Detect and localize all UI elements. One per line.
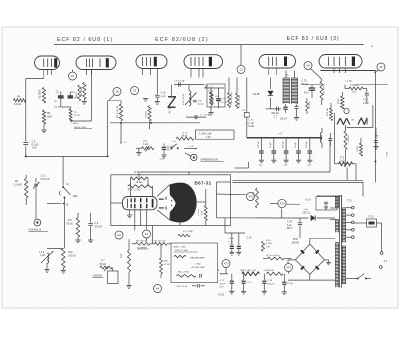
svg-text:R9 4,7k 1W: R9 4,7k 1W — [117, 105, 119, 118]
wire HT bus — [54, 44, 373, 48]
wire band bus — [47, 202, 65, 248]
svg-text:F 50: F 50 — [369, 216, 374, 219]
tube label ECF 82/6U8 (1) — [57, 37, 113, 43]
wire to band switch — [25, 155, 63, 185]
svg-text:25 V: 25 V — [167, 150, 172, 152]
wire arrow left — [218, 270, 228, 275]
wire pair right — [233, 164, 364, 197]
capacitor C33 — [282, 274, 294, 295]
capacitor C8 370p — [88, 213, 102, 240]
wire V2a grid — [145, 69, 147, 99]
wire caps link — [235, 162, 249, 168]
crt cone lines — [157, 185, 170, 220]
svg-text:C1. 2: C1. 2 — [198, 104, 204, 106]
ground below R10 — [61, 268, 66, 273]
svg-text:C 6 0,1 µF: C 6 0,1 µF — [174, 81, 185, 83]
capacitor C24 — [229, 233, 252, 255]
switch S2 — [171, 141, 179, 149]
svg-text:225 kΩ 4,25: 225 kΩ 4,25 — [154, 240, 167, 242]
svg-text:4 W: 4 W — [206, 136, 211, 139]
wire h217 — [217, 217, 282, 219]
wire p7 link — [118, 276, 130, 278]
svg-text:LINEAIR: LINEAIR — [93, 275, 103, 278]
wire R5 top — [65, 212, 91, 214]
terminal box P7 — [108, 268, 119, 284]
wire h122 — [110, 122, 200, 124]
tube V3b pin wires — [334, 68, 346, 73]
svg-text:B67-32: B67-32 — [195, 181, 212, 186]
svg-text:C 28: C 28 — [267, 280, 272, 282]
svg-text:12: 12 — [145, 232, 149, 236]
crt anode wire — [180, 202, 206, 226]
tube V2a pin wires — [143, 69, 151, 76]
capacitor C4 1uF — [68, 91, 79, 100]
svg-text:ECF 82 / 6U8 (1): ECF 82 / 6U8 (1) — [57, 37, 113, 43]
node A76 — [285, 263, 293, 273]
tube V3b anode wire — [352, 45, 354, 57]
svg-text:R74, 7,7 kΩ: R74, 7,7 kΩ — [128, 189, 141, 192]
tube V1b anode wire — [95, 45, 97, 57]
transformer T1 label — [286, 71, 295, 79]
svg-text:1 kV: 1 kV — [32, 147, 37, 150]
speaker jack — [185, 153, 197, 161]
resistor R2 120k — [136, 240, 151, 249]
svg-text:A75: A75 — [224, 261, 229, 265]
tube V2b envelope — [184, 55, 223, 69]
svg-text:25 V: 25 V — [220, 287, 225, 289]
node 16 — [109, 88, 122, 101]
diode B51 — [282, 209, 335, 221]
label KANAAL B — [29, 228, 49, 232]
potentiometer P2 1k — [136, 140, 154, 156]
svg-text:47 µF: 47 µF — [221, 102, 227, 104]
wire left column — [26, 79, 44, 141]
svg-text:(1W): (1W) — [47, 117, 52, 119]
coil L2 tuned — [183, 85, 196, 106]
tube label ECF 82/6U8 (2) — [155, 37, 209, 43]
resistor R24 225k — [154, 240, 168, 245]
svg-text:( 1kΩ.): ( 1kΩ.) — [72, 123, 79, 125]
resistor R77b — [178, 231, 193, 237]
capacitor bank C30 — [258, 137, 313, 163]
svg-text:C 24: C 24 — [247, 238, 253, 240]
coil L42 — [39, 251, 54, 272]
transformer T70 terminals — [346, 206, 354, 238]
svg-text:A p: A p — [384, 260, 388, 263]
svg-text:R 13: R 13 — [183, 132, 189, 134]
svg-text:1/Ba: 1/Ba — [73, 195, 79, 198]
resistor R14 4.7k — [228, 78, 234, 108]
svg-text:C 17: C 17 — [363, 100, 369, 102]
resistor R18 — [209, 88, 212, 112]
svg-text:+ 2 V: + 2 V — [188, 146, 194, 148]
svg-text:C 7 50 pF: C 7 50 pF — [201, 115, 212, 117]
ground g2 — [208, 113, 213, 116]
resistor R105 — [263, 255, 292, 260]
resistor R74 — [128, 185, 153, 192]
wire v263 — [262, 138, 264, 242]
svg-text:50 µF: 50 µF — [220, 283, 226, 285]
resistor R6 56k — [81, 82, 86, 99]
label 1.2k — [345, 81, 352, 83]
resistor R55 0.7k — [240, 270, 259, 276]
svg-text:R72 1,5k: R72 1,5k — [253, 191, 255, 200]
wire v232 — [232, 139, 234, 218]
svg-text:16: 16 — [115, 90, 119, 94]
node A70 — [270, 199, 286, 207]
ground below C8 — [88, 240, 93, 243]
wire h171 — [140, 139, 330, 172]
capacitor C25 — [236, 233, 241, 255]
capacitor C5 0.1uF — [23, 140, 39, 156]
label L78 — [248, 120, 255, 129]
transformer T70 secondary — [342, 208, 346, 284]
svg-text:SPREKER BX1: SPREKER BX1 — [201, 157, 220, 161]
ground bridge — [325, 260, 331, 265]
svg-text:12,5µ: 12,5µ — [287, 283, 293, 285]
svg-text:125 µF: 125 µF — [258, 140, 260, 148]
svg-text:C35 0,1 µF: C35 0,1 µF — [177, 286, 189, 288]
svg-text:3,4kΩ(1W): 3,4kΩ(1W) — [264, 270, 275, 272]
wire h273 — [228, 273, 289, 275]
diode OA85 — [253, 78, 274, 109]
svg-text:1 µF: 1 µF — [304, 209, 309, 211]
svg-text:+56 pF: +56 pF — [54, 106, 62, 108]
label R31+R32 — [174, 247, 199, 253]
svg-text:1 MΩ: 1 MΩ — [216, 99, 221, 101]
capacitor C29 8uF — [287, 218, 303, 238]
wire crt base leads — [127, 210, 147, 231]
resistor R76 — [344, 125, 350, 164]
resistor R51 47k — [177, 271, 202, 277]
capacitor C1 48p — [54, 90, 71, 108]
svg-text:OA 85: OA 85 — [253, 92, 261, 96]
svg-text:R21 1k: R21 1k — [309, 100, 311, 108]
trimmer C12 — [193, 100, 204, 106]
resistor R70 12k — [130, 171, 148, 184]
resistor R22 2.2M — [349, 84, 363, 94]
svg-text:CHOKE VERT: CHOKE VERT — [191, 267, 206, 269]
svg-text:2 cm: 2 cm — [160, 159, 165, 161]
svg-text:4 C 8: 4 C 8 — [169, 107, 171, 113]
node 14 — [304, 62, 322, 80]
terminal plug A — [379, 252, 387, 269]
resistor R470 — [320, 79, 325, 105]
label M25 — [219, 294, 225, 297]
potentiometer P5 — [338, 92, 344, 109]
wire heavy right bus — [320, 71, 376, 183]
tube V2b anode wire — [202, 45, 204, 55]
label B50 — [292, 238, 300, 245]
transformer T1 winding 1 — [283, 78, 290, 104]
svg-text:25 µF: 25 µF — [295, 142, 297, 148]
box C109 — [196, 130, 235, 139]
label C30 — [259, 165, 312, 167]
svg-text:370 pF: 370 pF — [95, 226, 103, 229]
resistor R3 280 — [39, 88, 46, 104]
svg-text:1,2 MΩ: 1,2 MΩ — [14, 184, 22, 187]
wire bridge bottom — [288, 274, 335, 280]
svg-text:0,5-3 pF: 0,5-3 pF — [41, 178, 50, 181]
svg-text:H2: H2 — [117, 233, 121, 237]
node 16b — [344, 108, 349, 113]
wire h233 — [225, 218, 245, 233]
box line filter — [316, 197, 337, 211]
resistor R8 — [42, 110, 52, 124]
wire bridge top — [310, 238, 335, 244]
svg-text:1 µF: 1 µF — [161, 95, 166, 98]
ground g1 — [143, 99, 148, 102]
svg-text:A76: A76 — [286, 265, 291, 269]
wire R70 vert — [131, 172, 153, 197]
wire R3-R8 — [43, 70, 45, 111]
capacitor C16 47uF — [216, 88, 227, 108]
svg-text:R78 1W: R78 1W — [327, 107, 329, 116]
resistor R5 56k — [67, 213, 80, 237]
transformer T70 primary — [335, 196, 338, 287]
label 1k — [72, 123, 79, 125]
svg-text:39 kΩ: 39 kΩ — [182, 136, 188, 138]
wire arrow +2V — [184, 146, 198, 150]
box raster — [171, 243, 218, 283]
node A43 — [154, 285, 162, 293]
wire R9 top — [109, 101, 122, 104]
svg-text:+ 3: + 3 — [278, 132, 282, 136]
tube V1b envelope — [76, 56, 116, 70]
capacitor C7 50p — [186, 115, 211, 120]
wire T70 primary taps — [330, 196, 337, 219]
wire h129 — [110, 128, 135, 130]
tube V1a pin wires — [44, 70, 52, 79]
svg-text:280 Ω: 280 Ω — [76, 92, 78, 98]
crt neck — [111, 197, 157, 210]
svg-text:P5 1k: P5 1k — [338, 98, 340, 104]
wire crt box inner — [189, 172, 231, 218]
svg-text:15: 15 — [379, 65, 383, 69]
svg-text:50 V: 50 V — [304, 92, 309, 95]
svg-text:R4: R4 — [17, 95, 21, 99]
svg-text:C14, 2,2 kΩ: C14, 2,2 kΩ — [239, 95, 241, 107]
wire down arrow — [120, 123, 126, 144]
tube V1b pin wires — [87, 70, 92, 76]
svg-text:R77 (1W): R77 (1W) — [183, 231, 193, 233]
capacitor C73 1uF — [294, 103, 299, 117]
tube V1a envelope — [35, 56, 60, 70]
resistor R60 — [76, 85, 81, 101]
antenna jack — [34, 219, 41, 226]
svg-text:~ 6 kV: ~ 6 kV — [387, 151, 389, 158]
svg-text:C7 µF: C7 µF — [248, 123, 255, 125]
resistor R21 — [306, 98, 311, 114]
resistor R30 47k — [160, 244, 170, 278]
tube V2a anode wire — [140, 45, 142, 55]
svg-text:RASTER AMPL: RASTER AMPL — [190, 257, 206, 260]
svg-text:A70: A70 — [279, 202, 285, 206]
ground below R5 — [75, 237, 80, 243]
resistor R78 — [327, 103, 333, 121]
svg-text:ECF 82/6U8 (2): ECF 82/6U8 (2) — [155, 37, 209, 43]
node 12 — [143, 230, 151, 238]
node A75 — [222, 260, 230, 274]
svg-text:7,5 kΩ: 7,5 kΩ — [248, 126, 255, 128]
svg-text:R51, 47 kΩ: R51, 47 kΩ — [178, 271, 189, 273]
capacitor C26 — [241, 274, 252, 294]
crt electrodes — [127, 198, 153, 208]
switch S70 — [346, 274, 371, 280]
tube V1a anode wire — [55, 45, 57, 59]
tube V3a anode wire — [285, 45, 287, 57]
svg-text:300 V: 300 V — [287, 228, 293, 230]
wire yoke — [335, 105, 380, 164]
capacitor C35 — [177, 284, 206, 288]
capacitor C6 — [174, 81, 205, 87]
svg-text:M 25: M 25 — [219, 294, 225, 297]
svg-text:C 25: C 25 — [229, 241, 234, 243]
resistor R56 3.4k — [264, 270, 284, 276]
svg-text:R3 280Ω: R3 280Ω — [39, 89, 42, 99]
svg-text:R14 4,7k/1W: R14 4,7k/1W — [231, 91, 233, 105]
label druk hor — [74, 127, 92, 129]
bridge rectifier B50 — [295, 244, 324, 274]
label 6.3V — [306, 199, 312, 202]
capacitor 100uF — [280, 104, 288, 121]
potentiometer P6 1k — [339, 156, 353, 167]
resistor R77 12k — [357, 138, 363, 156]
trimmer C81 — [33, 175, 50, 219]
capacitor C15 1uF — [155, 69, 167, 105]
tube V1b electrodes — [86, 58, 109, 67]
capacitor C28 250uF — [262, 274, 275, 294]
label cluster C25 — [229, 238, 235, 247]
resistor R104 4.7k — [261, 240, 272, 252]
svg-text:350 µF: 350 µF — [306, 140, 308, 148]
svg-text:R2 120 kΩ: R2 120 kΩ — [136, 240, 147, 242]
wire h84 right — [297, 84, 389, 86]
crt bell — [170, 183, 197, 223]
node 15a — [131, 87, 139, 95]
svg-text:250 C1: 250 C1 — [303, 212, 311, 214]
coil Z (peaking) — [168, 85, 176, 114]
svg-text:R 10: R 10 — [266, 240, 271, 242]
label LINEAIR — [93, 275, 104, 278]
wire fuse — [354, 223, 382, 252]
svg-text:C 29: C 29 — [287, 222, 293, 224]
ground g3 — [294, 118, 299, 121]
node 13 — [237, 45, 245, 74]
resistor R12 39k — [176, 132, 194, 140]
fuse F50 — [367, 216, 377, 228]
capacitor C27 50uF — [220, 274, 235, 294]
svg-text:13: 13 — [239, 67, 243, 71]
svg-text:100 kΩ: 100 kΩ — [146, 111, 148, 118]
coil yoke line — [337, 118, 355, 124]
svg-text:250 µF: 250 µF — [283, 140, 285, 148]
capacitor C2 500p — [266, 107, 281, 119]
tube V3b electrodes — [328, 57, 355, 67]
svg-text:14: 14 — [306, 64, 310, 68]
wire r2 links — [129, 226, 171, 251]
resistor R73 2.2M — [198, 189, 207, 226]
svg-text:12 kΩ: 12 kΩ — [14, 102, 21, 106]
wire v263b — [262, 251, 264, 273]
svg-text:C 109 0,1µF: C 109 0,1µF — [199, 132, 213, 135]
label B67-32 — [195, 181, 212, 186]
svg-text:250-90: 250-90 — [292, 241, 300, 244]
svg-text:R10: R10 — [68, 251, 73, 254]
svg-text:T 70: T 70 — [347, 200, 353, 203]
crt focus marks — [159, 197, 166, 210]
tube V2a electrodes — [142, 57, 157, 67]
svg-text:2,2 MΩ: 2,2 MΩ — [350, 84, 358, 87]
label raster ampl — [174, 255, 206, 259]
svg-text:47 kΩ: 47 kΩ — [164, 264, 170, 266]
svg-text:102 kΩ: 102 kΩ — [348, 135, 350, 142]
svg-text:R55 0,7kΩ 7 W: R55 0,7kΩ 7 W — [240, 270, 256, 272]
svg-text:100 kΩ: 100 kΩ — [68, 255, 76, 258]
svg-text:C 27: C 27 — [220, 280, 225, 282]
resistor R1 1.2M — [14, 175, 28, 205]
svg-text:0,1µF: 0,1µF — [363, 103, 370, 105]
svg-text:ECF 82 / 6U8 (3): ECF 82 / 6U8 (3) — [287, 36, 340, 42]
svg-text:91 kΩ: 91 kΩ — [74, 115, 80, 117]
resistor R10 100k — [47, 248, 76, 268]
wire heater — [286, 195, 342, 204]
wire R1 top — [22, 174, 36, 176]
svg-text:R E. 470 Ω: R E. 470 Ω — [323, 84, 325, 95]
capacitor C17 — [345, 85, 370, 105]
svg-text:R? 50 Ω (3w): R? 50 Ω (3w) — [267, 255, 280, 257]
svg-text:8 µF: 8 µF — [287, 225, 292, 227]
capacitor C9 10uF — [161, 144, 173, 158]
box picture tube unit — [111, 175, 231, 226]
label 6kV — [387, 151, 389, 158]
transformer T1 winding 2 — [291, 78, 298, 104]
potentiometer P7 56k — [100, 260, 113, 272]
resistor R9 4.7k — [117, 104, 123, 121]
wire B+ rail — [247, 132, 322, 139]
wire mid horizontal — [63, 101, 108, 158]
capacitor C70 200uF — [301, 80, 316, 99]
ground below R8 — [41, 124, 46, 133]
wire bus tick 2 — [129, 43, 131, 47]
transformer T70 core — [339, 195, 341, 288]
svg-text:C 39: C 39 — [374, 136, 379, 138]
svg-text:1 kΩ: 1 kΩ — [143, 143, 148, 146]
tube V2a envelope — [136, 55, 167, 69]
resistor R20 2.2k — [236, 78, 242, 109]
wire h88 — [204, 85, 224, 88]
tube V3b envelope — [319, 55, 362, 69]
tube V3a pin wires — [269, 68, 277, 75]
node 22 — [69, 70, 77, 81]
wire h194 — [217, 193, 247, 196]
svg-text:A4: A4 — [156, 287, 160, 291]
transformer T70 label — [347, 200, 353, 203]
tube V1a electrodes — [43, 58, 57, 67]
svg-text:(R31+ 7 MΩ: (R31+ 7 MΩ — [174, 247, 186, 249]
capacitor C78 — [328, 133, 332, 146]
tube V2b electrodes — [191, 57, 212, 67]
svg-text:4,7kΩ: 4,7kΩ — [266, 243, 272, 245]
node A7 — [247, 193, 255, 201]
svg-text:1,2 kΩ: 1,2 kΩ — [345, 81, 352, 83]
svg-text:56 kΩ: 56 kΩ — [67, 223, 74, 226]
switch S1 — [59, 183, 78, 207]
wire bus tick 1 — [56, 43, 58, 47]
coil L76 — [320, 128, 322, 148]
label choke — [191, 264, 206, 270]
svg-text:6 3 V: 6 3 V — [306, 199, 312, 202]
